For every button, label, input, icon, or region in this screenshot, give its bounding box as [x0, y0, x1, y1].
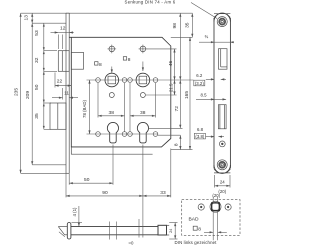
- right side extension lines: [171, 36, 193, 38]
- washer left: [198, 204, 204, 210]
- svg-text:(3.8): (3.8): [195, 134, 204, 139]
- faceplate end view: [67, 223, 71, 240]
- hole row 134: [96, 132, 101, 137]
- dim 12 top: [51, 26, 74, 49]
- label square-8 right: [123, 57, 143, 71]
- svg-text:DIN links gezeichnet: DIN links gezeichnet: [175, 240, 218, 245]
- latch bolt head: [58, 51, 69, 72]
- dim 78 (BAD): [82, 80, 90, 134]
- label square 8: [193, 226, 201, 232]
- faceplate side view: [66, 13, 69, 173]
- centerline row 95: [146, 94, 177, 96]
- dim 235 left: [14, 13, 21, 173]
- washer right: [225, 204, 231, 210]
- dim 3/4 width: [199, 34, 234, 42]
- dim (20) top: [212, 193, 220, 203]
- lock case outline: [69, 37, 171, 147]
- svg-text:21.5: 21.5: [168, 83, 173, 92]
- dim 50 bottom: [69, 145, 113, 185]
- svg-text:72: 72: [174, 106, 180, 112]
- case bar end box: [158, 225, 169, 235]
- dim 72: [174, 80, 180, 128]
- dim 8 spindle width: [204, 231, 227, 233]
- countersunk screw top: [217, 17, 227, 27]
- svg-text:78 (BAD): 78 (BAD): [82, 100, 87, 118]
- deadbolt head: [50, 103, 66, 129]
- deadbolt opening front: [218, 105, 226, 129]
- svg-text:13: 13: [23, 15, 29, 21]
- case bottom second wall: [71, 147, 152, 154]
- svg-text:38: 38: [140, 110, 146, 116]
- dim chain 53/32/50/35: [34, 23, 57, 129]
- dim 38 right: [130, 83, 156, 132]
- svg-text:53: 53: [34, 30, 40, 36]
- case bar top: [71, 226, 158, 228]
- case bar bottom: [71, 234, 158, 236]
- svg-text:209: 209: [25, 91, 31, 99]
- svg-text:8: 8: [99, 62, 102, 68]
- svg-text:4 (1): 4 (1): [72, 207, 77, 216]
- top screw post left: [108, 45, 117, 54]
- svg-text:35: 35: [34, 113, 40, 119]
- dim 33 bottom: [143, 149, 171, 198]
- spindle projection lines: [212, 211, 214, 241]
- svg-text:8: 8: [198, 226, 201, 232]
- latch opening front: [219, 49, 228, 69]
- svg-text:6.8: 6.8: [197, 127, 204, 132]
- hole row 80: [96, 78, 101, 83]
- svg-text:33: 33: [160, 190, 166, 196]
- svg-text:35: 35: [184, 22, 190, 28]
- svg-text:38: 38: [109, 110, 115, 116]
- countersunk screw bottom: [217, 160, 227, 170]
- leader to countersunk screw: [191, 3, 217, 19]
- plain hole front: [219, 141, 225, 147]
- follower nut: [210, 201, 221, 212]
- svg-text:11: 11: [64, 91, 69, 97]
- svg-text:BAD: BAD: [188, 217, 199, 223]
- holes below followers: [109, 93, 114, 98]
- cylinder hole right: [137, 122, 148, 142]
- svg-text:46: 46: [168, 61, 174, 67]
- wire: 209 bottom extension line: [32, 164, 66, 166]
- plate outline: [214, 13, 230, 173]
- svg-text:22: 22: [57, 79, 63, 85]
- dim 4 (1): [72, 206, 83, 226]
- wire: 235 bottom extension line: [21, 172, 66, 174]
- svg-text:8: 8: [174, 143, 180, 146]
- dim 24 end: [169, 223, 178, 240]
- cylinder hole left: [107, 122, 118, 142]
- dim 21.5: [168, 80, 174, 95]
- svg-text:8: 8: [128, 57, 131, 63]
- svg-text:98: 98: [172, 23, 178, 29]
- svg-text:165: 165: [184, 91, 190, 99]
- dim 38 left: [98, 83, 125, 132]
- dim 46: [168, 49, 174, 80]
- dim 98: [172, 13, 180, 80]
- detail box dashed: [182, 200, 240, 236]
- svg-text:(3.2): (3.2): [195, 81, 204, 86]
- projection lines cylinder 1: [109, 222, 111, 240]
- dim 22: [55, 73, 71, 88]
- svg-text:≈0: ≈0: [129, 240, 134, 245]
- dim 13 left: [23, 13, 32, 23]
- label square-8 left: [95, 62, 112, 73]
- svg-text:(20): (20): [212, 193, 220, 198]
- svg-text:235: 235: [14, 88, 20, 96]
- svg-text:12: 12: [60, 26, 66, 32]
- dim 6.2 (3.2): [194, 73, 226, 86]
- svg-text:24: 24: [169, 229, 173, 233]
- svg-text:50: 50: [84, 177, 90, 183]
- dim 165: [184, 37, 190, 149]
- follower left: [105, 73, 119, 87]
- dim 90 bottom: [66, 145, 143, 198]
- follower right: [136, 73, 150, 87]
- svg-text:90: 90: [102, 190, 108, 196]
- projection lines cylinder 2: [138, 219, 140, 238]
- svg-text:24: 24: [220, 180, 225, 185]
- svg-text:32: 32: [34, 57, 40, 63]
- svg-text:8.5: 8.5: [200, 93, 207, 98]
- dim 209 left: [25, 23, 32, 165]
- dim 35: [184, 13, 192, 37]
- svg-text:Senkung DIN 74 - Am 6: Senkung DIN 74 - Am 6: [125, 0, 176, 5]
- dim 24 (20): [215, 175, 231, 194]
- wire: faceplate top extension line: [21, 12, 193, 14]
- centerline row 80: [87, 79, 194, 81]
- centerline row 134: [87, 133, 159, 135]
- latch bolt body: [71, 52, 83, 69]
- svg-text:6.2: 6.2: [196, 73, 203, 78]
- top screw post right: [139, 45, 148, 54]
- latch tip wedge: [58, 227, 67, 237]
- svg-text:50: 50: [34, 84, 40, 90]
- svg-text:¾: ¾: [205, 34, 209, 39]
- dim 8: [174, 135, 181, 149]
- dim 11: [52, 88, 78, 100]
- dim 6.8 (3.8): [194, 127, 224, 139]
- dim 8.5: [196, 93, 226, 100]
- wire: 209 top extension line: [32, 22, 66, 24]
